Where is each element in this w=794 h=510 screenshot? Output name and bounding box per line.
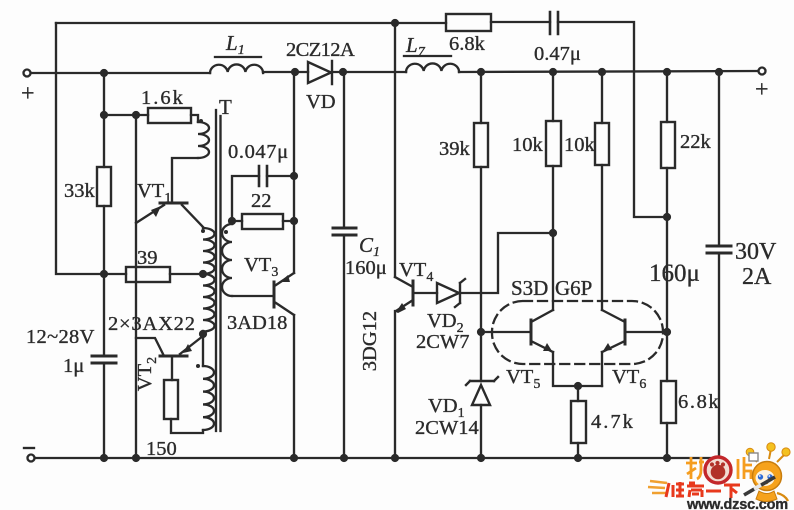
wire 22 resistor row [232,220,294,222]
transistor VT3 [274,273,294,315]
wire VT2 base to 150 [171,356,173,380]
wire bottom negative rail [35,457,719,459]
capacitor 0.047u [259,166,267,186]
inductor L7 [406,63,459,72]
minus sign [24,447,34,449]
svg-text:+: + [21,81,35,107]
transformer winding W2 lower [203,274,215,332]
svg-text:G6P: G6P [555,276,592,300]
polarity dot W3 [196,364,200,368]
L1 overline [215,56,261,58]
wire W2 to W3 [202,331,204,366]
polarity dot W2 [201,229,205,233]
transistor VT1 [136,203,203,227]
diode VD 2CZ12A [308,61,332,84]
wire emitter rail x294 [293,72,295,457]
wire output capacitor branch [718,72,720,457]
svg-text:1μ: 1μ [63,355,84,377]
wire VD1 to ground [480,405,482,457]
svg-text:2A: 2A [742,264,772,290]
svg-text:+: + [755,77,769,103]
svg-text:3AD18: 3AD18 [227,312,287,334]
resistor 150 [164,380,178,419]
wire VT4 base to VD2 [414,292,437,294]
transformer winding W2 primary mid [203,228,215,274]
svg-text:160μ: 160μ [649,260,700,287]
resistor 6.8k right [661,381,676,423]
wire VT5 base [481,331,531,333]
transistor VT4 [395,277,413,313]
svg-text:T: T [219,95,232,119]
resistor 10k b [595,123,609,165]
transformer winding W3 primary bottom [203,366,214,430]
svg-text:10k: 10k [564,134,596,156]
inductor L1 [210,64,263,73]
resistor 22 [242,214,283,229]
L7 overline [404,55,451,57]
wire VT6 emitter down [601,352,603,386]
watermark dzsc logo group [648,443,790,510]
resistor 39k [474,123,488,167]
dashed outline S3D G6P pair [492,301,663,364]
wire VT4 collector line [394,23,396,277]
wire main positive rail [31,71,758,73]
svg-text:22: 22 [251,190,272,212]
wire 33k branch vertical [103,73,105,457]
wire W3 bottom to 150 resistor [171,419,203,433]
wire VD2 to VT5 collector node [461,233,553,293]
svg-text:33k: 33k [64,180,96,202]
svg-text:1.6k: 1.6k [141,87,185,109]
svg-text:S3D: S3D [511,276,548,300]
svg-text:6.8k: 6.8k [678,391,720,413]
svg-text:30V: 30V [735,239,777,265]
svg-text:39k: 39k [439,138,471,160]
svg-text:6.8k: 6.8k [449,33,486,55]
capacitor C1 [333,72,356,457]
svg-text:2CW7: 2CW7 [416,331,470,353]
weiku yixia red characters [666,482,740,498]
transformer winding secondary [222,224,232,296]
wire VT6 base to 22k line [625,331,667,333]
svg-text:10k: 10k [512,134,544,156]
wire VT1 emitter / VT2 collector rail [135,115,137,457]
capacitor 160u output [707,246,731,253]
wire left drop from top line to 39 node [56,23,104,274]
transistor VT5 [531,310,553,352]
terminal - bottom-left [28,455,35,462]
zener diode VD1 2CW14 [466,377,498,405]
svg-text:3DG12: 3DG12 [359,311,381,371]
svg-text:2×3AX22: 2×3AX22 [108,313,196,335]
resistor 1.6k [148,108,191,123]
svg-text:4.7k: 4.7k [591,411,635,433]
transistor VT6 [602,310,625,352]
svg-text:0.47μ: 0.47μ [534,43,581,65]
terminal + output top-right [759,68,766,75]
wire VT5 emitter to common [553,352,602,386]
resistor 10k a [546,121,561,166]
mascot robot [744,443,790,502]
resistor 39 [126,267,170,282]
transformer winding W1 primary top [198,122,209,158]
svg-text:150: 150 [146,438,177,460]
capacitor 1u electrolytic [92,356,116,363]
wire VT4 emitter down [394,311,396,457]
svg-text:0.047μ: 0.047μ [228,141,289,163]
svg-text:12~28V: 12~28V [26,326,95,348]
zener diode VD2 2CW7 [437,279,465,307]
svg-text:160μ: 160μ [345,257,387,279]
svg-text:22k: 22k [680,131,712,153]
char pian of zhaoxinpian [738,457,752,479]
svg-text:VD: VD [306,91,336,113]
wire secondary bottom to VT3 base [232,295,273,297]
wire 4.7k branch [577,386,579,457]
wire 10k-b branch [601,72,603,310]
char zhao of zhaoxinpian [686,457,704,479]
speed lines [648,481,667,493]
resistor 33k [97,167,111,206]
svg-text:2CW14: 2CW14 [415,417,479,439]
resistor 4.7k [571,401,586,443]
wire 39k branch [480,72,482,381]
capacitor 0.47u [550,12,558,34]
wire W1 bottom to VT1 base [172,158,198,201]
wire top feedback line [56,22,667,217]
wire 10k-a branch [552,72,554,310]
terminal + input top-left [24,70,31,77]
wire 39 node row [104,273,203,275]
resistor 22k [661,122,675,168]
wire 22k branch [666,72,668,457]
polarity dot secondary [224,230,228,234]
red circle chip logo [705,457,731,483]
wire 1.6k feed [104,115,198,122]
transformer core [216,110,221,431]
svg-text:39: 39 [137,247,158,269]
svg-text:2CZ12A: 2CZ12A [286,39,355,61]
wire secondary top node [232,176,294,224]
resistor 6.8k top [446,14,491,31]
polarity dot W1 [199,119,203,123]
transistor VT2 [136,336,203,356]
